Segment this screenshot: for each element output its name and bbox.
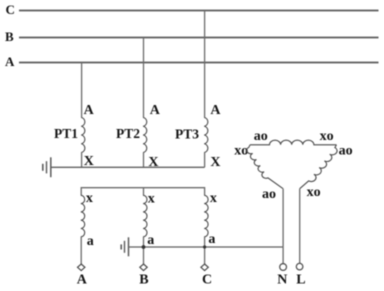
wire PT2 to X-bus (143, 153, 145, 168)
wire S1 to terminal A (80, 237, 82, 264)
secondary top bus wire (81, 188, 204, 196)
svg-text:a: a (147, 233, 154, 248)
svg-text:xo: xo (320, 129, 334, 144)
wire C-bus to PT3 (204, 11, 206, 118)
terminal C diamond (201, 264, 208, 271)
svg-text:X: X (210, 155, 220, 170)
svg-text:N: N (277, 273, 287, 288)
svg-text:A: A (77, 273, 88, 288)
svg-text:ao: ao (254, 129, 268, 144)
svg-text:PT3: PT3 (175, 126, 199, 141)
wire S3 to terminal C (204, 237, 206, 264)
svg-text:B: B (139, 273, 148, 288)
junction at S2/a-bus (142, 245, 146, 249)
broken-delta top winding (250, 140, 337, 145)
svg-text:ao: ao (339, 143, 353, 158)
svg-text:a: a (208, 232, 215, 247)
broken-delta left winding (247, 145, 283, 189)
svg-text:B: B (5, 29, 14, 44)
terminal N circle (280, 264, 287, 271)
wire S2 to terminal B (143, 237, 145, 264)
junction at S3/a-bus (203, 245, 206, 248)
wire A-bus to PT1 (81, 63, 83, 118)
PT3 primary winding (204, 118, 208, 153)
broken-delta right winding (300, 145, 337, 189)
svg-text:x: x (86, 191, 93, 206)
svg-text:A: A (150, 103, 161, 118)
svg-text:PT2: PT2 (116, 126, 140, 141)
svg-text:a: a (87, 234, 94, 249)
terminal B diamond (140, 264, 147, 271)
wire delta to L (299, 189, 301, 264)
wire sec2 top (143, 188, 145, 196)
secondary winding S3 (204, 195, 208, 237)
svg-text:L: L (296, 273, 305, 288)
PT1 primary winding (81, 118, 85, 153)
ground G2 (121, 237, 128, 256)
bus C (19, 10, 379, 12)
PT2 primary winding (143, 118, 147, 153)
terminal L circle (296, 263, 303, 270)
wire PT3 to X-bus (204, 153, 206, 168)
neutral a-bus wire (129, 246, 284, 248)
wire B-bus to PT2 (143, 38, 145, 118)
svg-text:C: C (6, 2, 15, 17)
svg-text:A: A (84, 103, 95, 118)
terminal A diamond (78, 264, 85, 271)
svg-text:A: A (210, 103, 221, 118)
ground G1 (43, 157, 51, 177)
bus A (19, 62, 379, 64)
wire delta to N (282, 189, 284, 264)
svg-text:xo: xo (307, 185, 321, 200)
wire PT1 to X-bus (81, 153, 83, 168)
secondary winding S1 (81, 195, 85, 237)
svg-text:ao: ao (262, 187, 276, 202)
svg-text:xo: xo (234, 143, 248, 158)
svg-text:A: A (5, 54, 15, 69)
svg-text:x: x (148, 192, 155, 207)
bus B (19, 37, 379, 39)
svg-text:x: x (210, 191, 217, 206)
X-bus wire (51, 166, 205, 168)
svg-text:C: C (202, 273, 212, 288)
svg-text:PT1: PT1 (54, 126, 78, 141)
secondary winding S2 (143, 195, 147, 237)
